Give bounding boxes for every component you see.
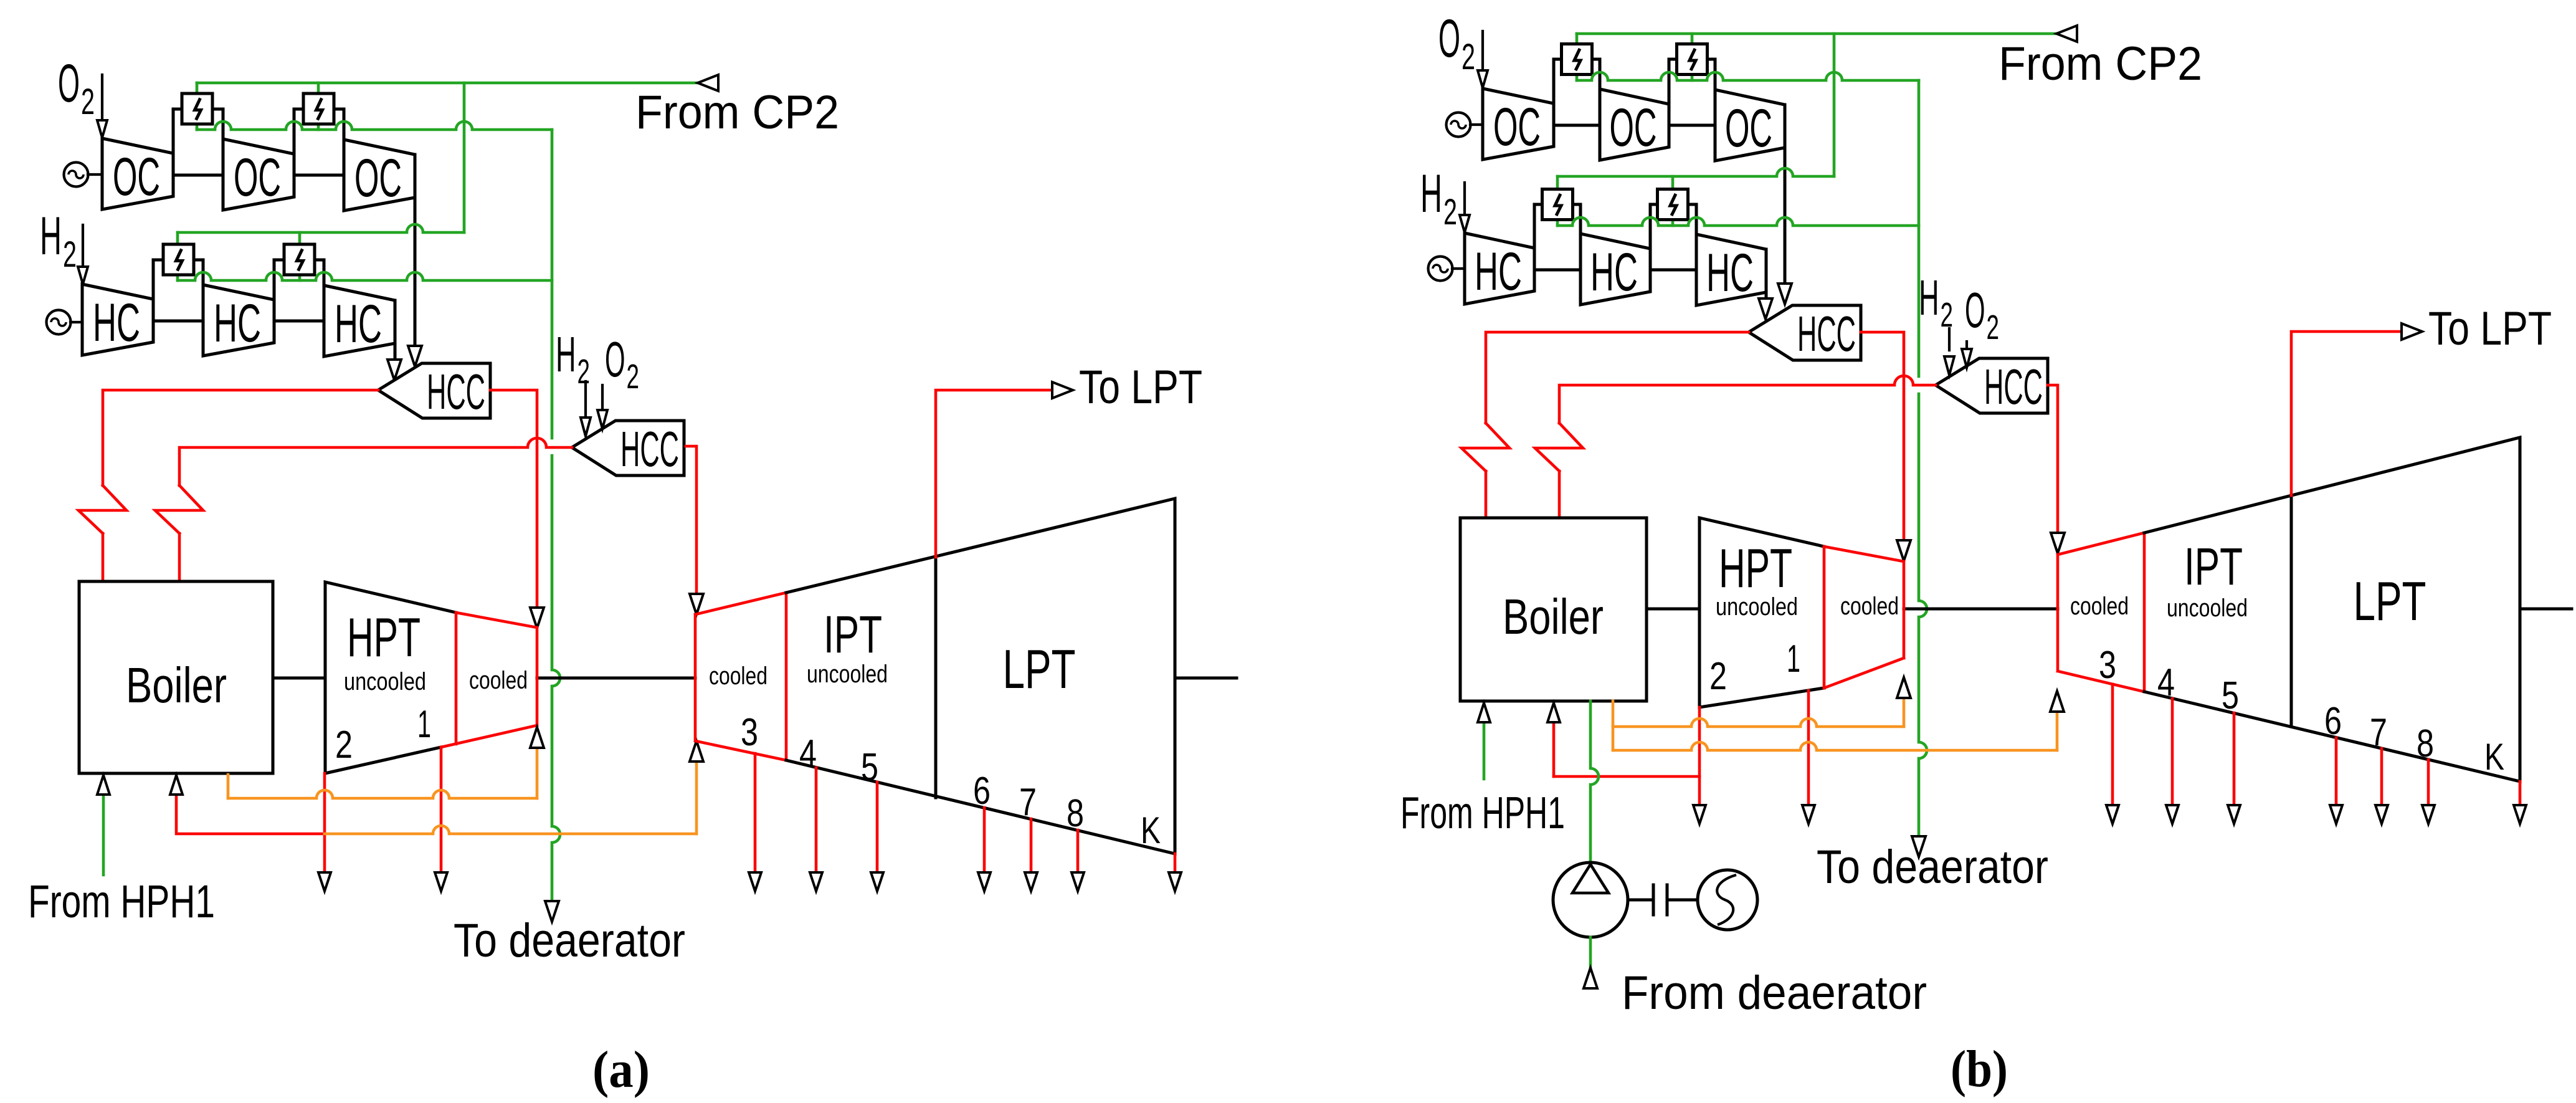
svg-text:H: H <box>40 206 62 266</box>
svg-text:1: 1 <box>1787 637 1800 680</box>
svg-text:HC: HC <box>1590 242 1638 302</box>
svg-text:2: 2 <box>63 234 77 275</box>
svg-text:(b): (b) <box>1951 1040 2008 1098</box>
svg-text:To deaerator: To deaerator <box>1817 841 2048 894</box>
svg-text:5: 5 <box>2222 674 2239 717</box>
svg-text:2: 2 <box>1941 296 1953 334</box>
svg-text:Boiler: Boiler <box>126 657 227 713</box>
svg-text:4: 4 <box>2157 661 2175 704</box>
svg-text:(a): (a) <box>592 1041 650 1099</box>
svg-text:IPT: IPT <box>2184 537 2243 596</box>
svg-text:OC: OC <box>1610 98 1657 158</box>
svg-text:HC: HC <box>93 293 140 353</box>
svg-text:From HPH1: From HPH1 <box>28 876 215 927</box>
svg-text:From CP2: From CP2 <box>1999 37 2202 90</box>
svg-text:To LPT: To LPT <box>2428 302 2552 355</box>
svg-text:To deaerator: To deaerator <box>454 914 685 967</box>
svg-text:uncooled: uncooled <box>1716 593 1798 621</box>
svg-text:4: 4 <box>799 732 817 775</box>
svg-text:H: H <box>1420 164 1442 224</box>
svg-text:OC: OC <box>234 148 281 208</box>
svg-text:From HPH1: From HPH1 <box>1400 788 1565 838</box>
svg-text:From CP2: From CP2 <box>635 86 839 139</box>
svg-text:K: K <box>2484 736 2504 778</box>
svg-text:2: 2 <box>81 82 95 122</box>
svg-text:O: O <box>605 332 625 387</box>
svg-text:O: O <box>1965 282 1985 338</box>
svg-text:HPT: HPT <box>347 606 421 668</box>
svg-text:OC: OC <box>1493 97 1541 157</box>
svg-text:cooled: cooled <box>709 662 768 690</box>
svg-text:HCC: HCC <box>1797 306 1856 361</box>
svg-text:2: 2 <box>577 353 590 391</box>
svg-text:HCC: HCC <box>427 364 485 419</box>
svg-text:6: 6 <box>973 770 991 813</box>
svg-text:HC: HC <box>335 294 382 354</box>
svg-text:2: 2 <box>1709 655 1727 698</box>
svg-text:HCC: HCC <box>1984 359 2043 414</box>
svg-text:2: 2 <box>1461 37 1475 77</box>
svg-text:K: K <box>1141 809 1161 851</box>
svg-text:H: H <box>1919 270 1939 325</box>
svg-text:7: 7 <box>2370 711 2387 754</box>
svg-text:uncooled: uncooled <box>807 661 888 688</box>
svg-text:8: 8 <box>1067 792 1084 835</box>
svg-text:From deaerator: From deaerator <box>1622 967 1927 1019</box>
svg-text:HC: HC <box>1475 242 1522 302</box>
svg-text:1: 1 <box>417 703 431 746</box>
svg-text:8: 8 <box>2417 722 2434 765</box>
svg-text:LPT: LPT <box>2354 570 2426 632</box>
svg-text:2: 2 <box>335 723 353 766</box>
svg-text:IPT: IPT <box>824 605 882 664</box>
svg-text:HC: HC <box>214 294 261 353</box>
svg-text:OC: OC <box>113 147 160 207</box>
svg-text:2: 2 <box>1443 192 1457 232</box>
svg-text:2: 2 <box>1987 308 1999 346</box>
svg-text:HPT: HPT <box>1719 537 1792 599</box>
svg-text:OC: OC <box>1725 98 1772 158</box>
svg-text:3: 3 <box>741 711 758 754</box>
svg-text:cooled: cooled <box>1840 593 1899 620</box>
svg-text:cooled: cooled <box>2070 593 2129 620</box>
svg-text:3: 3 <box>2099 644 2116 687</box>
svg-text:LPT: LPT <box>1003 638 1076 700</box>
svg-text:HCC: HCC <box>620 421 679 477</box>
svg-text:HC: HC <box>1706 243 1754 303</box>
svg-text:O: O <box>1438 9 1460 69</box>
svg-text:2: 2 <box>627 358 639 396</box>
svg-text:O: O <box>58 54 80 113</box>
svg-text:cooled: cooled <box>469 667 528 694</box>
svg-text:uncooled: uncooled <box>2167 594 2248 622</box>
svg-text:To LPT: To LPT <box>1079 361 1202 414</box>
svg-text:Boiler: Boiler <box>1503 589 1604 644</box>
svg-text:5: 5 <box>861 746 878 789</box>
svg-text:uncooled: uncooled <box>344 668 426 695</box>
svg-text:7: 7 <box>1019 781 1037 824</box>
svg-text:6: 6 <box>2324 700 2342 743</box>
svg-text:OC: OC <box>354 148 402 208</box>
svg-text:H: H <box>556 327 576 382</box>
